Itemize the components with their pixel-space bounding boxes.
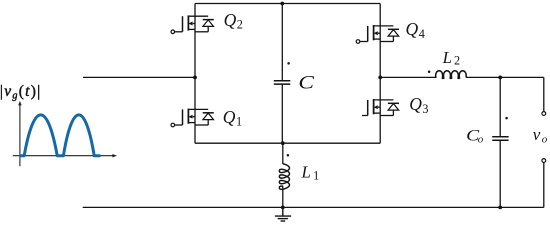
svg-text:Q: Q [409, 94, 422, 114]
svg-text:3: 3 [422, 102, 428, 116]
capacitor C [274, 81, 291, 84]
inductor L2 [436, 71, 467, 79]
svg-text:Q: Q [224, 10, 237, 30]
wire: - terminal down to bottom rail [543, 162, 545, 207]
svg-text:Q: Q [406, 19, 419, 39]
svg-text:L: L [301, 163, 311, 182]
svg-text:1: 1 [313, 168, 319, 182]
transistor Q2 [171, 15, 214, 33]
junction right leg midpoint [378, 76, 382, 80]
wire: top rail [195, 3, 380, 5]
svg-text:o: o [542, 134, 548, 146]
polarity dot near L2 [428, 70, 431, 73]
terminal - of vo [542, 159, 546, 163]
waveform: rectified sine curve [21, 115, 100, 156]
junction Co bottom node [498, 206, 502, 210]
junction left leg midpoint [193, 76, 197, 80]
wire: C branch lower [281, 85, 283, 144]
svg-text:o: o [478, 134, 484, 146]
polarity dot near Co [505, 117, 508, 120]
wire: right leg midpoint to L2 [380, 76, 436, 78]
svg-text:1: 1 [236, 114, 242, 128]
wire: input line to left leg midpoint [83, 76, 195, 78]
svg-text:C: C [298, 72, 314, 93]
junction output top node [498, 76, 502, 80]
wire: C branch upper [281, 4, 283, 81]
waveform vertical axis [18, 101, 21, 166]
svg-text:2: 2 [237, 18, 243, 32]
capacitor Co [492, 137, 508, 140]
wire: L2 to output node [466, 76, 544, 78]
transistor Q4 [356, 25, 399, 43]
wire: output node to Co top [499, 77, 501, 136]
waveform horizontal axis [13, 154, 117, 157]
transistor Q1 [171, 109, 214, 127]
polarity dot near L1 [287, 154, 290, 157]
junction bridge bottom / L1 [281, 141, 285, 145]
polarity dot near C [287, 62, 290, 65]
wire: Co bottom to bottom rail [499, 141, 501, 208]
wire: right bridge leg [379, 4, 381, 144]
junction L1 / ground [281, 206, 285, 210]
junction top rail / C [280, 2, 284, 6]
svg-text:Q: Q [223, 107, 236, 127]
svg-text:|vg(t)|: |vg(t)| [0, 83, 42, 102]
ground [275, 207, 291, 221]
svg-text:4: 4 [419, 27, 425, 41]
transistor Q3 [362, 99, 399, 115]
wire: bottom return rail [83, 206, 544, 208]
svg-text:v: v [533, 125, 541, 144]
wire: bridge bottom [195, 142, 380, 144]
wire: left bridge leg [194, 4, 196, 144]
wire: bridge bottom to L1 [282, 143, 284, 164]
svg-text:L: L [442, 48, 452, 67]
inductor L1 [279, 164, 289, 190]
wire: output corner down to + terminal [543, 77, 545, 111]
wire: L1 to bottom rail [282, 186, 284, 207]
terminal + of vo [542, 112, 546, 116]
svg-text:2: 2 [454, 54, 460, 68]
